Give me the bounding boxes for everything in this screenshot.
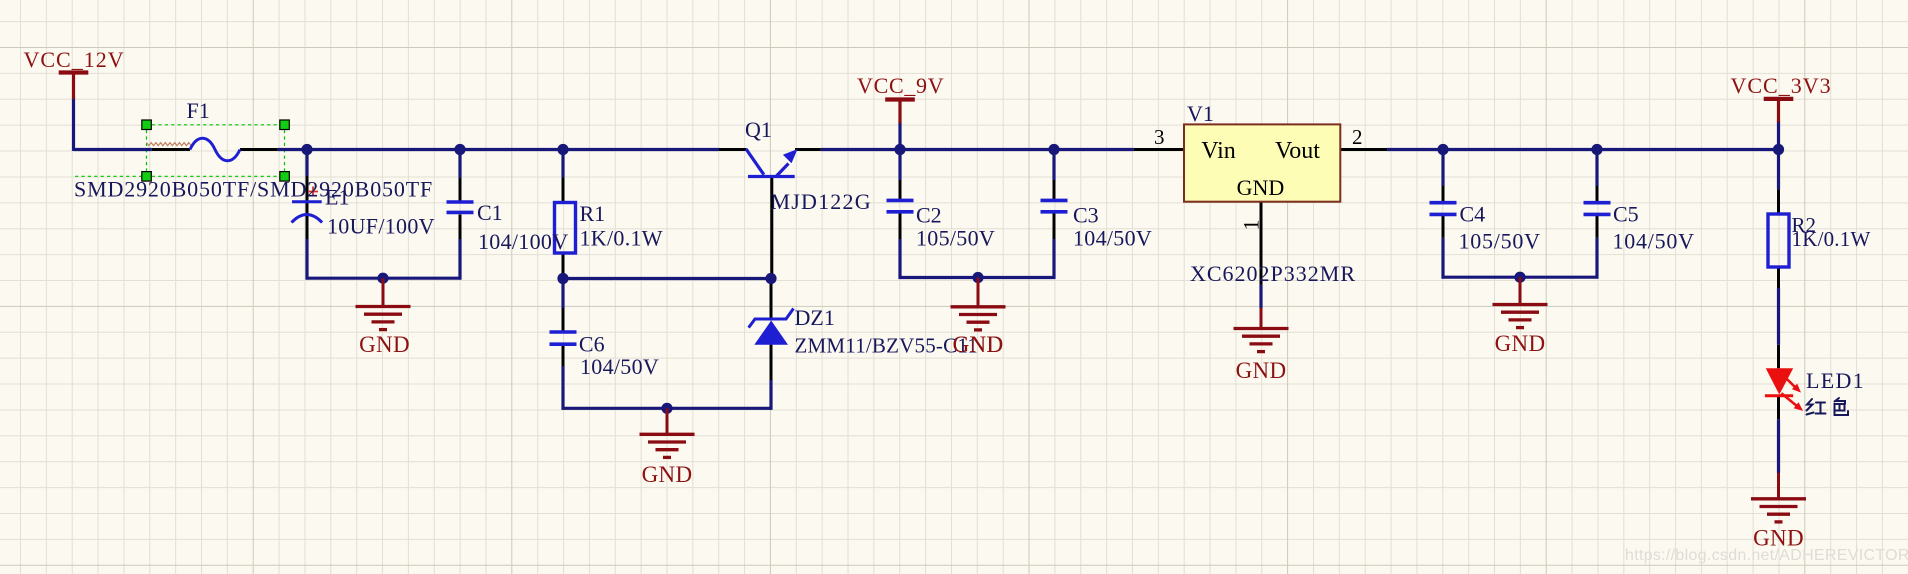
svg-text:3: 3 [1154, 125, 1165, 149]
svg-text:10UF/100V: 10UF/100V [327, 214, 435, 239]
svg-text:VCC_3V3: VCC_3V3 [1731, 73, 1832, 98]
svg-text:MJD122G: MJD122G [771, 189, 872, 214]
svg-text:1: 1 [1239, 220, 1264, 231]
svg-text:C6: C6 [579, 332, 605, 357]
svg-text:DZ1: DZ1 [795, 305, 835, 330]
svg-text:GND: GND [953, 332, 1004, 357]
svg-text:XC6202P332MR: XC6202P332MR [1190, 261, 1356, 286]
svg-text:C5: C5 [1613, 202, 1639, 227]
svg-text:GND: GND [1236, 358, 1287, 383]
svg-text:1K/0.1W: 1K/0.1W [1792, 227, 1871, 251]
svg-text:C1: C1 [477, 200, 503, 225]
svg-text:F1: F1 [187, 98, 210, 123]
svg-text:VCC_9V: VCC_9V [857, 73, 944, 98]
svg-text:SMD2920B050TF/SMD2920B050TF: SMD2920B050TF/SMD2920B050TF [74, 177, 433, 202]
svg-text:GND: GND [1495, 331, 1546, 356]
svg-text:Vin: Vin [1201, 138, 1236, 164]
svg-text:E1: E1 [325, 185, 349, 210]
svg-text:GND: GND [1237, 175, 1285, 200]
svg-text:GND: GND [359, 332, 410, 357]
svg-text:VCC_12V: VCC_12V [24, 47, 125, 72]
svg-text:C3: C3 [1073, 203, 1099, 228]
svg-text:Vout: Vout [1275, 138, 1320, 164]
svg-text:2: 2 [1352, 125, 1363, 149]
svg-text:105/50V: 105/50V [916, 226, 995, 251]
svg-text:C4: C4 [1460, 202, 1486, 227]
svg-text:104/100V: 104/100V [478, 229, 568, 254]
svg-text:104/50V: 104/50V [1613, 229, 1695, 254]
svg-text:C2: C2 [916, 203, 942, 228]
svg-text:Q1: Q1 [745, 117, 772, 142]
svg-text:105/50V: 105/50V [1459, 229, 1541, 254]
svg-text:https://blog.csdn.net/ADHEREVI: https://blog.csdn.net/ADHEREVICTOR [1625, 547, 1908, 564]
svg-text:104/50V: 104/50V [1073, 226, 1152, 251]
svg-text:1K/0.1W: 1K/0.1W [580, 226, 663, 251]
svg-text:104/50V: 104/50V [580, 354, 659, 379]
svg-text:LED1: LED1 [1806, 368, 1865, 393]
svg-text:GND: GND [642, 462, 693, 487]
svg-text:V1: V1 [1187, 101, 1214, 126]
svg-text:R1: R1 [580, 201, 606, 226]
svg-text:ZMM11/BZV55-C11: ZMM11/BZV55-C11 [795, 334, 978, 358]
